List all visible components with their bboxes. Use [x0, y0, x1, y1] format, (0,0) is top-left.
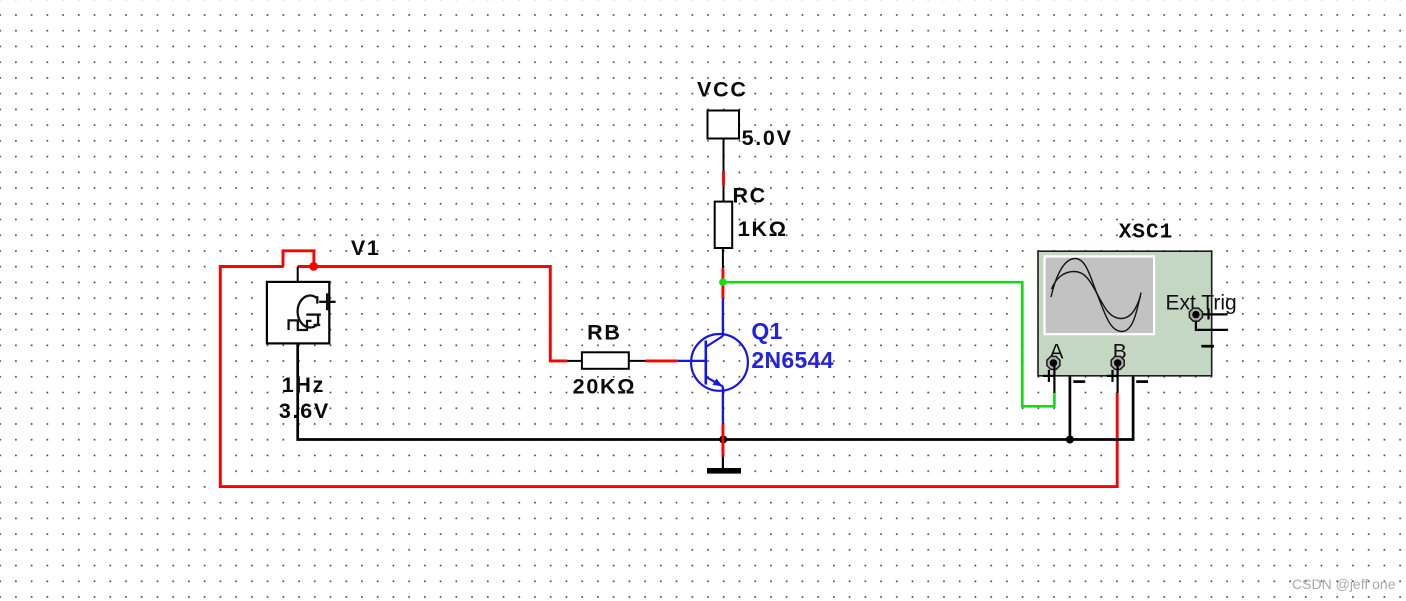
power VCC symbol — [708, 111, 740, 139]
resistor RC — [715, 202, 733, 248]
resistor RB — [582, 352, 629, 369]
wire red bump over V1 — [283, 251, 314, 267]
B minus mark — [1136, 380, 1148, 383]
emitter arrow — [713, 379, 723, 387]
svg-text:1KΩ: 1KΩ — [738, 217, 788, 241]
node dot red at V1 plus — [309, 262, 318, 271]
node dot green at collector — [719, 278, 727, 286]
scope screen — [1043, 255, 1155, 335]
A minus mark — [1073, 380, 1085, 383]
svg-text:RB: RB — [587, 320, 621, 344]
wire black: bottom ground rail from V1 to scope B minus stub — [298, 343, 1133, 439]
oscilloscope XSC1 — [1038, 222, 1237, 382]
wire red: V1 top to RB — [298, 267, 568, 361]
svg-text:2N6544: 2N6544 — [751, 347, 833, 373]
wire emitter down (blue/red/black) — [722, 386, 724, 424]
screen sine trace big — [1051, 259, 1141, 332]
terminal A — [1047, 356, 1060, 369]
Ext Trig minus — [1201, 345, 1214, 348]
wire red RB to base — [646, 359, 678, 362]
svg-text:VCC: VCC — [697, 77, 748, 101]
svg-text:3.6V: 3.6V — [279, 399, 330, 423]
wire red: V1 plus loop (left vertical, bottom rail, up to scope B) — [220, 267, 1117, 487]
A plus mark — [1048, 370, 1050, 382]
svg-text:5.0V: 5.0V — [742, 126, 793, 150]
Ext Trig plus — [1207, 308, 1209, 319]
screen sine trace small — [1052, 272, 1141, 319]
wire RB leads black — [567, 360, 582, 362]
voltage source V1 (clock source) — [267, 282, 336, 344]
svg-text:RC: RC — [732, 184, 766, 208]
base lead — [678, 360, 706, 362]
collector diagonal — [706, 336, 723, 347]
scope body — [1038, 251, 1212, 376]
svg-text:V1: V1 — [351, 236, 381, 260]
wire scope A plus lead black part — [1053, 366, 1055, 393]
wire scope B plus lead black part — [1116, 366, 1118, 393]
wire black: V1 top pin — [297, 267, 299, 282]
wire VCC to RC (black with red segment) — [723, 139, 725, 172]
G glyph — [298, 296, 321, 328]
svg-text:20KΩ: 20KΩ — [573, 374, 636, 398]
svg-text:CSDN @jeff one: CSDN @jeff one — [1292, 576, 1396, 592]
B plus mark — [1111, 370, 1113, 382]
plus sign — [326, 293, 328, 310]
wire green: collector to scope A — [723, 282, 1055, 406]
node junction dot (A minus to rail) — [1066, 436, 1074, 444]
square wave glyph — [289, 320, 312, 330]
terminal B — [1111, 356, 1124, 369]
base bar — [704, 341, 707, 385]
emitter diagonal — [706, 377, 723, 387]
svg-text:1Hz: 1Hz — [282, 373, 325, 397]
svg-text:XSC1: XSC1 — [1119, 222, 1173, 245]
wire black: scope A minus stub — [1053, 363, 1070, 440]
transistor Q1 2N6544 — [678, 334, 748, 391]
svg-text:Q1: Q1 — [751, 318, 782, 344]
node junction dot (emitter to rail) — [719, 436, 727, 444]
wire RC to collector (black / red / blue) — [722, 248, 724, 268]
Ext Trig lead stubs — [1196, 313, 1227, 315]
ground — [707, 468, 741, 474]
terminal Ext Trig — [1189, 308, 1202, 321]
